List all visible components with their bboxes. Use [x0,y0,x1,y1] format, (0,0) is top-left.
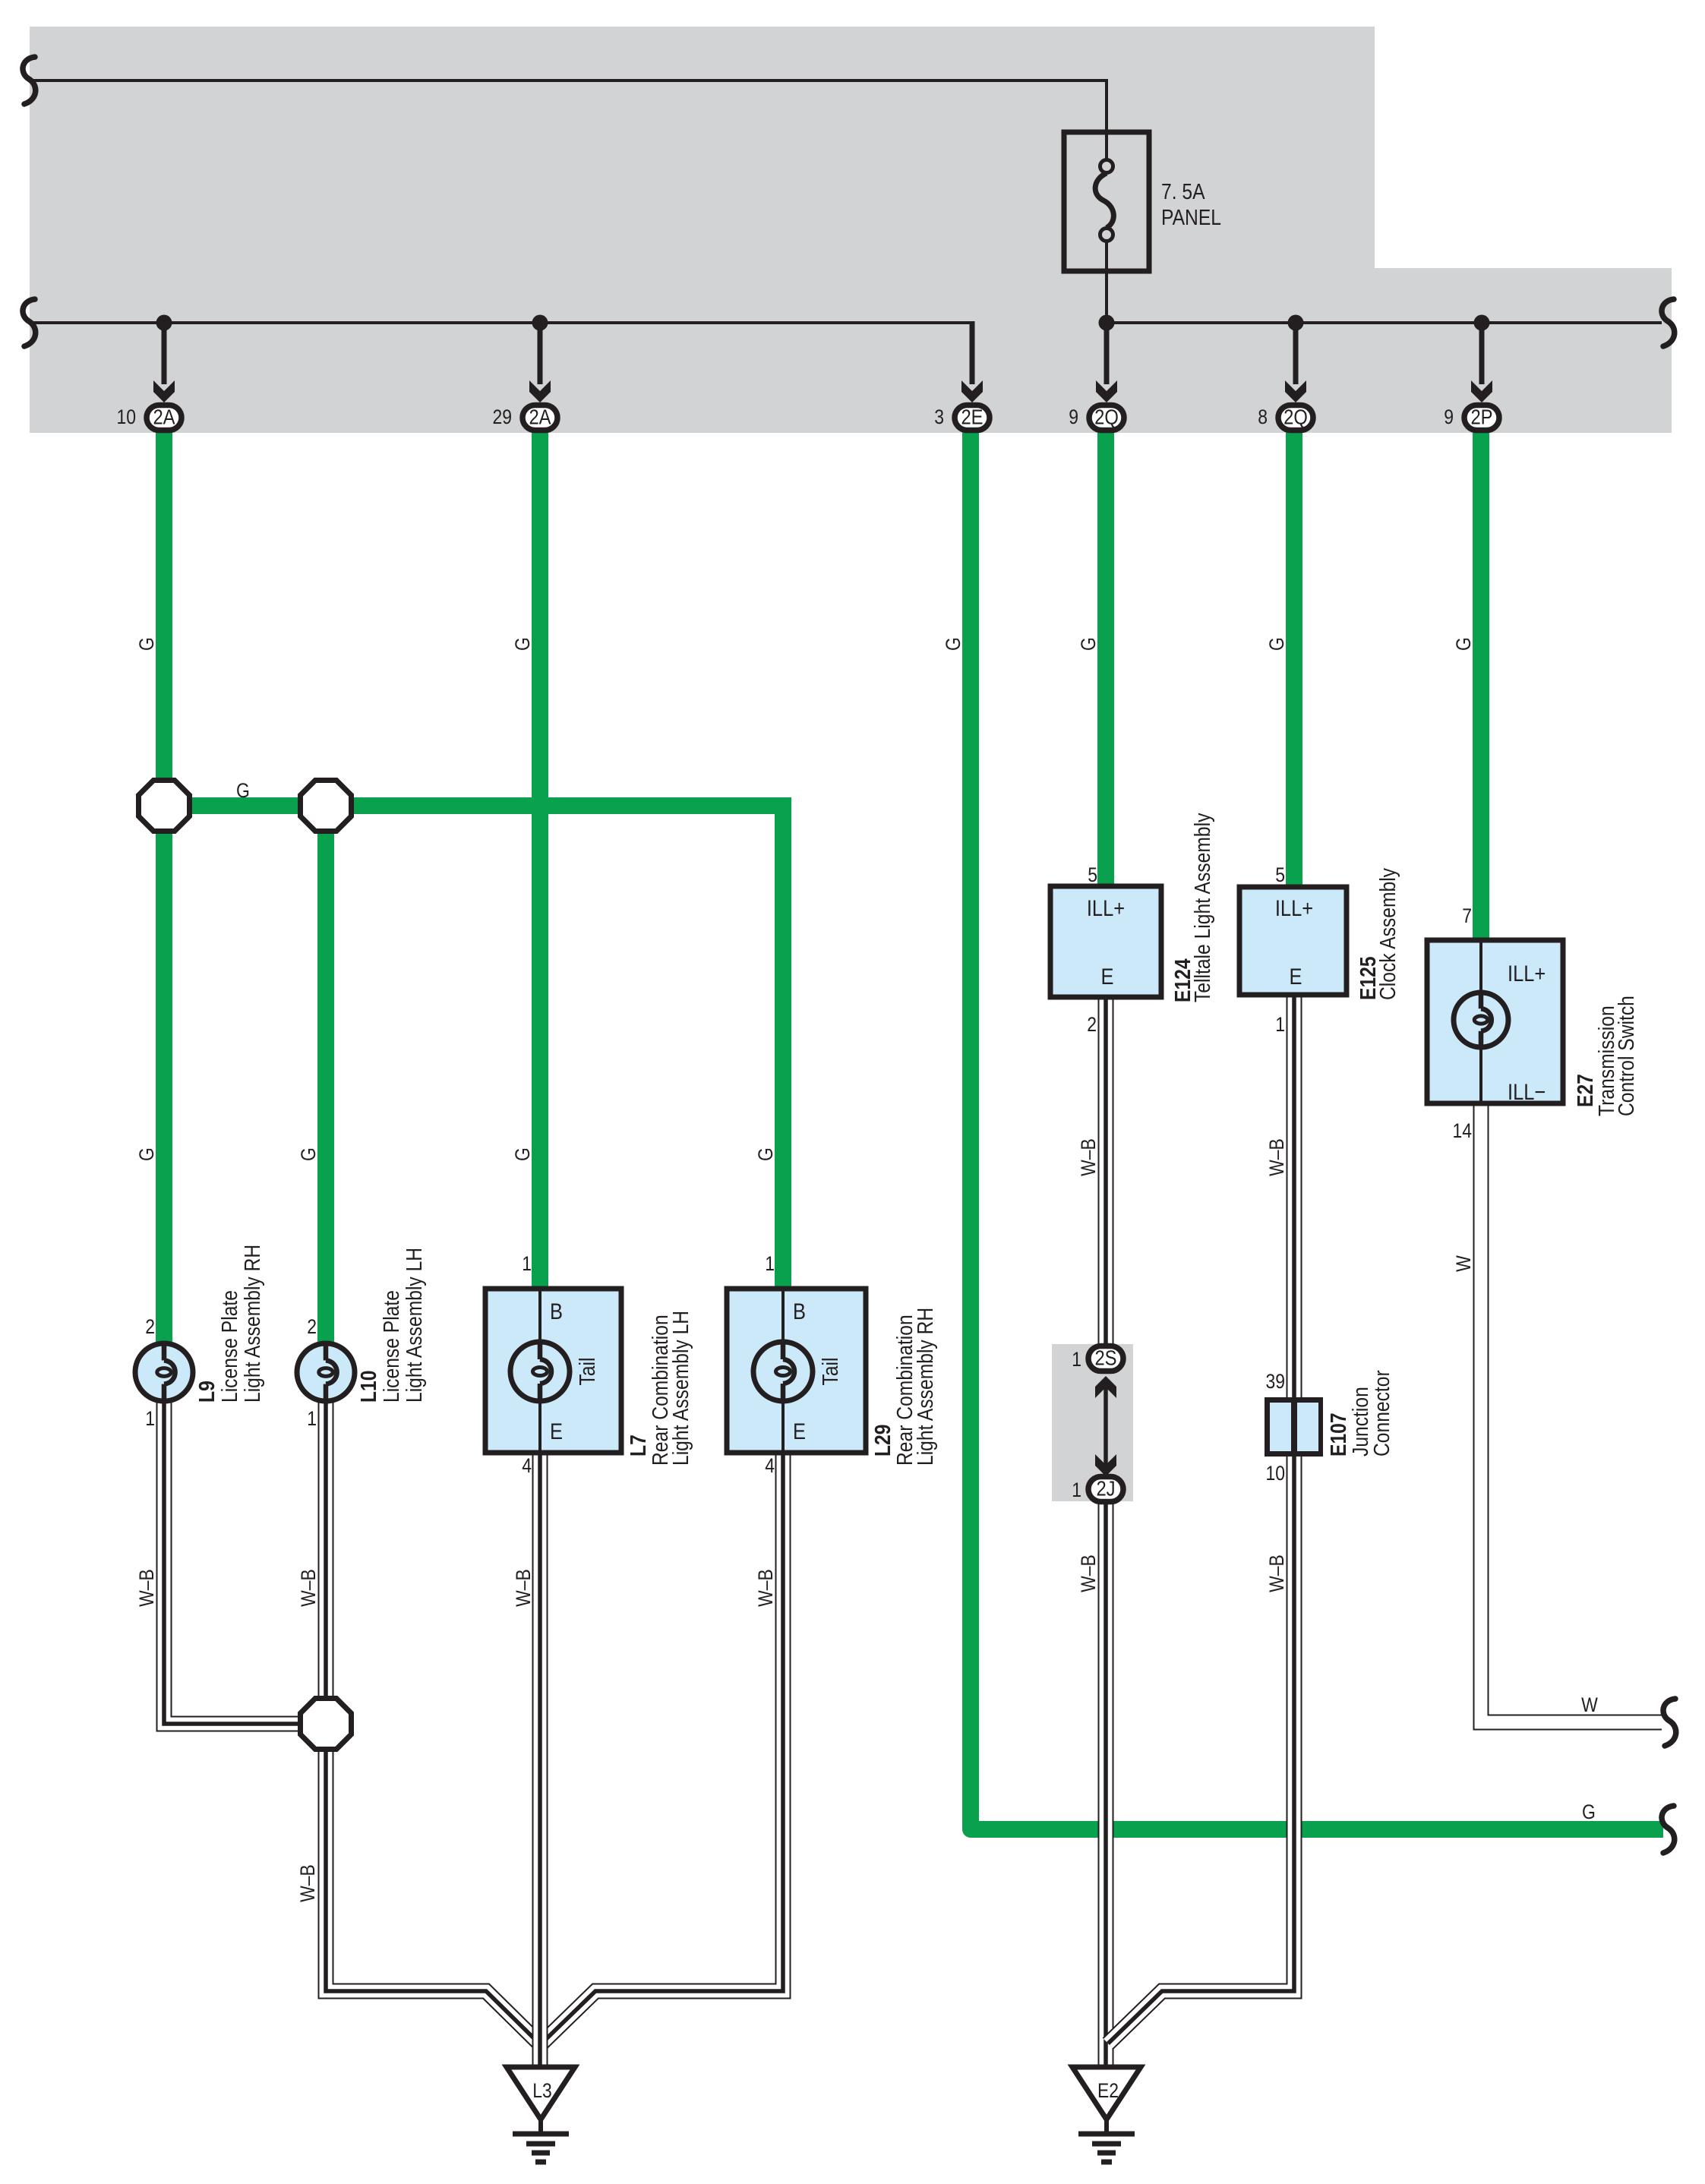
svg-text:ILL+: ILL+ [1275,896,1313,921]
wire W-B from L29 pin4 to ground join [541,1453,783,2044]
svg-text:W–B: W–B [512,1569,535,1607]
wire G from 2A-10 to L9 [156,425,172,1344]
svg-text:7: 7 [1462,904,1472,927]
svg-text:2Q: 2Q [1094,406,1119,429]
svg-text:1: 1 [765,1252,775,1275]
bulb L9 License Plate Light Assembly RH [135,1343,193,1401]
component E124 Telltale Light Assembly [1050,886,1161,997]
svg-text:L3: L3 [532,2079,552,2102]
svg-text:L9: L9 [195,1381,219,1403]
svg-text:1: 1 [1275,1013,1285,1036]
wire drop to connector 2A pin29 [538,323,543,384]
svg-text:Light Assembly LH: Light Assembly LH [403,1248,427,1403]
svg-text:5: 5 [1275,863,1285,886]
svg-text:1: 1 [522,1252,532,1275]
svg-text:Light Assembly RH: Light Assembly RH [914,1308,938,1466]
svg-text:G: G [236,779,250,802]
svg-text:G: G [135,637,158,651]
svg-text:2E: 2E [961,406,983,429]
splice octagon J1 [139,781,190,832]
svg-text:W–B: W–B [1077,1138,1100,1176]
svg-text:B: B [550,1299,563,1324]
svg-text:2S: 2S [1094,1346,1116,1370]
component L29 Rear Combination Light Assembly RH [727,1289,866,1453]
svg-text:10: 10 [117,406,137,428]
wire W from E27 pin14 to break [1481,1103,1662,1722]
svg-text:14: 14 [1453,1119,1473,1142]
wire drop to connector 2P pin9 [1479,323,1485,384]
svg-text:2: 2 [1087,1013,1097,1036]
wire G from 2A-29 to L7 [532,425,548,1289]
svg-text:G: G [1265,637,1288,651]
svg-text:E: E [550,1419,563,1444]
svg-text:ILL+: ILL+ [1087,896,1125,921]
svg-text:L10: L10 [357,1371,381,1403]
connector oval 9 2P [1464,406,1499,431]
svg-text:L7: L7 [627,1434,651,1457]
break symbol bus left [23,299,36,346]
break symbol bus right [1662,299,1675,346]
gray harness region right [1375,268,1672,433]
arrow between 2S and 2J [1104,1386,1108,1466]
svg-text:5: 5 [1088,863,1097,886]
wire G from 2Q-9 to E124 [1097,425,1114,886]
svg-text:L29: L29 [871,1425,895,1457]
svg-text:G: G [942,637,965,651]
svg-text:B: B [793,1299,806,1324]
connector pair 2S/2J backdrop [1052,1344,1133,1501]
svg-text:E: E [1290,964,1302,989]
connector oval 8 2Q [1278,406,1313,431]
connector oval 3 2E [955,406,990,431]
svg-text:Control Switch: Control Switch [1615,996,1639,1116]
break symbol top left [23,57,36,104]
svg-text:1: 1 [145,1407,155,1430]
svg-text:10: 10 [1266,1462,1286,1485]
fuse 7.5A PANEL [1064,132,1149,271]
svg-text:Telltale Light Assembly: Telltale Light Assembly [1191,813,1215,1002]
svg-text:G: G [135,1147,158,1161]
svg-text:2: 2 [145,1315,155,1338]
svg-text:Light Assembly LH: Light Assembly LH [669,1311,693,1466]
svg-text:ILL+: ILL+ [1508,961,1546,986]
svg-text:Connector: Connector [1370,1370,1394,1457]
svg-text:W–B: W–B [1265,1138,1288,1176]
svg-text:License Plate: License Plate [218,1290,242,1403]
svg-text:Tail: Tail [576,1358,600,1386]
svg-text:W–B: W–B [754,1569,777,1607]
component E27 Transmission Control Switch [1427,940,1563,1103]
svg-text:1: 1 [1072,1479,1081,1501]
svg-text:9: 9 [1444,406,1454,428]
bulb L10 License Plate Light Assembly LH [297,1343,355,1401]
svg-text:2A: 2A [529,406,551,429]
svg-text:4: 4 [765,1454,775,1477]
wire G from 2Q-8 to E125 [1286,425,1302,887]
wire drop to connector 2A pin10 [162,323,167,384]
svg-text:G: G [511,637,534,651]
svg-text:G: G [1582,1801,1596,1823]
svg-text:7. 5A: 7. 5A [1161,180,1205,204]
svg-text:W: W [1581,1693,1598,1716]
connector oval 9 2Q [1089,406,1124,431]
component L7 Rear Combination Light Assembly LH [485,1289,621,1453]
svg-text:PANEL: PANEL [1161,206,1221,230]
svg-text:G: G [1077,637,1100,651]
wire W-B from E124 pin2 to ground E2 [1098,997,1114,2067]
svg-text:E: E [793,1419,806,1444]
component E125 Clock Assembly [1239,887,1347,995]
gray harness region upper-left [30,27,1375,433]
ground L3 [507,2067,575,2119]
connector oval 1 2S [1088,1346,1123,1371]
break symbol wire W right [1663,1699,1676,1746]
svg-text:2: 2 [307,1315,317,1338]
svg-text:W–B: W–B [135,1569,158,1607]
svg-text:G: G [511,1147,534,1161]
wire G branch octagon1 to octagon2 to L29 corner [164,806,783,1289]
wire fuse output [1105,271,1108,323]
wire drop to connector 2Q pin9 [1104,323,1110,384]
ground E2 [1072,2067,1141,2119]
svg-text:8: 8 [1258,406,1268,428]
wire top feed line [30,80,1107,132]
svg-text:29: 29 [493,406,513,428]
splice octagon J2 [301,781,352,832]
svg-text:2P: 2P [1470,406,1492,429]
svg-text:2J: 2J [1096,1477,1115,1501]
svg-text:2Q: 2Q [1283,406,1308,429]
svg-text:License Plate: License Plate [380,1290,404,1403]
svg-text:ILL−: ILL− [1508,1080,1546,1105]
svg-text:Tail: Tail [819,1358,843,1386]
svg-text:39: 39 [1266,1370,1286,1393]
svg-text:W–B: W–B [1077,1554,1100,1592]
svg-text:W–B: W–B [296,1864,319,1902]
component E107 Junction Connector [1265,1397,1323,1457]
wire W-B from L10 pin1 to splice octagon J3 [318,1401,334,1698]
svg-text:E107: E107 [1327,1412,1351,1457]
svg-text:G: G [754,1147,777,1161]
svg-text:W–B: W–B [297,1569,320,1607]
svg-text:W–B: W–B [1265,1554,1288,1592]
connector oval 10 2A [147,406,182,431]
svg-text:1: 1 [1072,1348,1081,1371]
svg-text:4: 4 [522,1454,532,1477]
svg-text:2A: 2A [153,406,175,429]
wire W-B from E125 pin1 through E107 to ground join [1108,995,1294,2044]
wire drop to connector 2E pin3 [970,321,975,384]
svg-text:G: G [297,1147,320,1161]
connector oval 29 2A [523,406,557,431]
svg-text:Light Assembly RH: Light Assembly RH [241,1245,265,1403]
svg-text:Clock Assembly: Clock Assembly [1376,868,1400,1000]
svg-text:9: 9 [1069,406,1078,428]
wire drop to connector 2Q pin8 [1293,323,1299,384]
wire G from 2E down and right to break [971,425,1663,1829]
svg-text:W: W [1452,1255,1475,1272]
wire W-B from L9 pin1 to splice octagon J3 [164,1401,300,1724]
connector oval 1 2J [1088,1477,1123,1502]
break symbol wire G bottom right [1662,1806,1675,1853]
splice octagon J3 [301,1699,352,1750]
svg-text:E: E [1101,964,1114,989]
svg-text:1: 1 [307,1407,317,1430]
wire main bus left segment [30,321,972,324]
wire W-B from L7 pin4 to ground L3 [532,1453,548,2067]
wire G from octagon2 down to L10 [317,806,334,1344]
svg-text:E2: E2 [1097,2079,1119,2102]
node junction dots on bus [156,315,172,331]
wire main bus right segment [1107,321,1662,324]
svg-text:3: 3 [934,406,944,428]
wire W-B from octagon J3 to ground join [326,1750,541,2045]
wire G from 2P-9 to E27 [1473,425,1489,940]
svg-text:G: G [1452,637,1475,651]
